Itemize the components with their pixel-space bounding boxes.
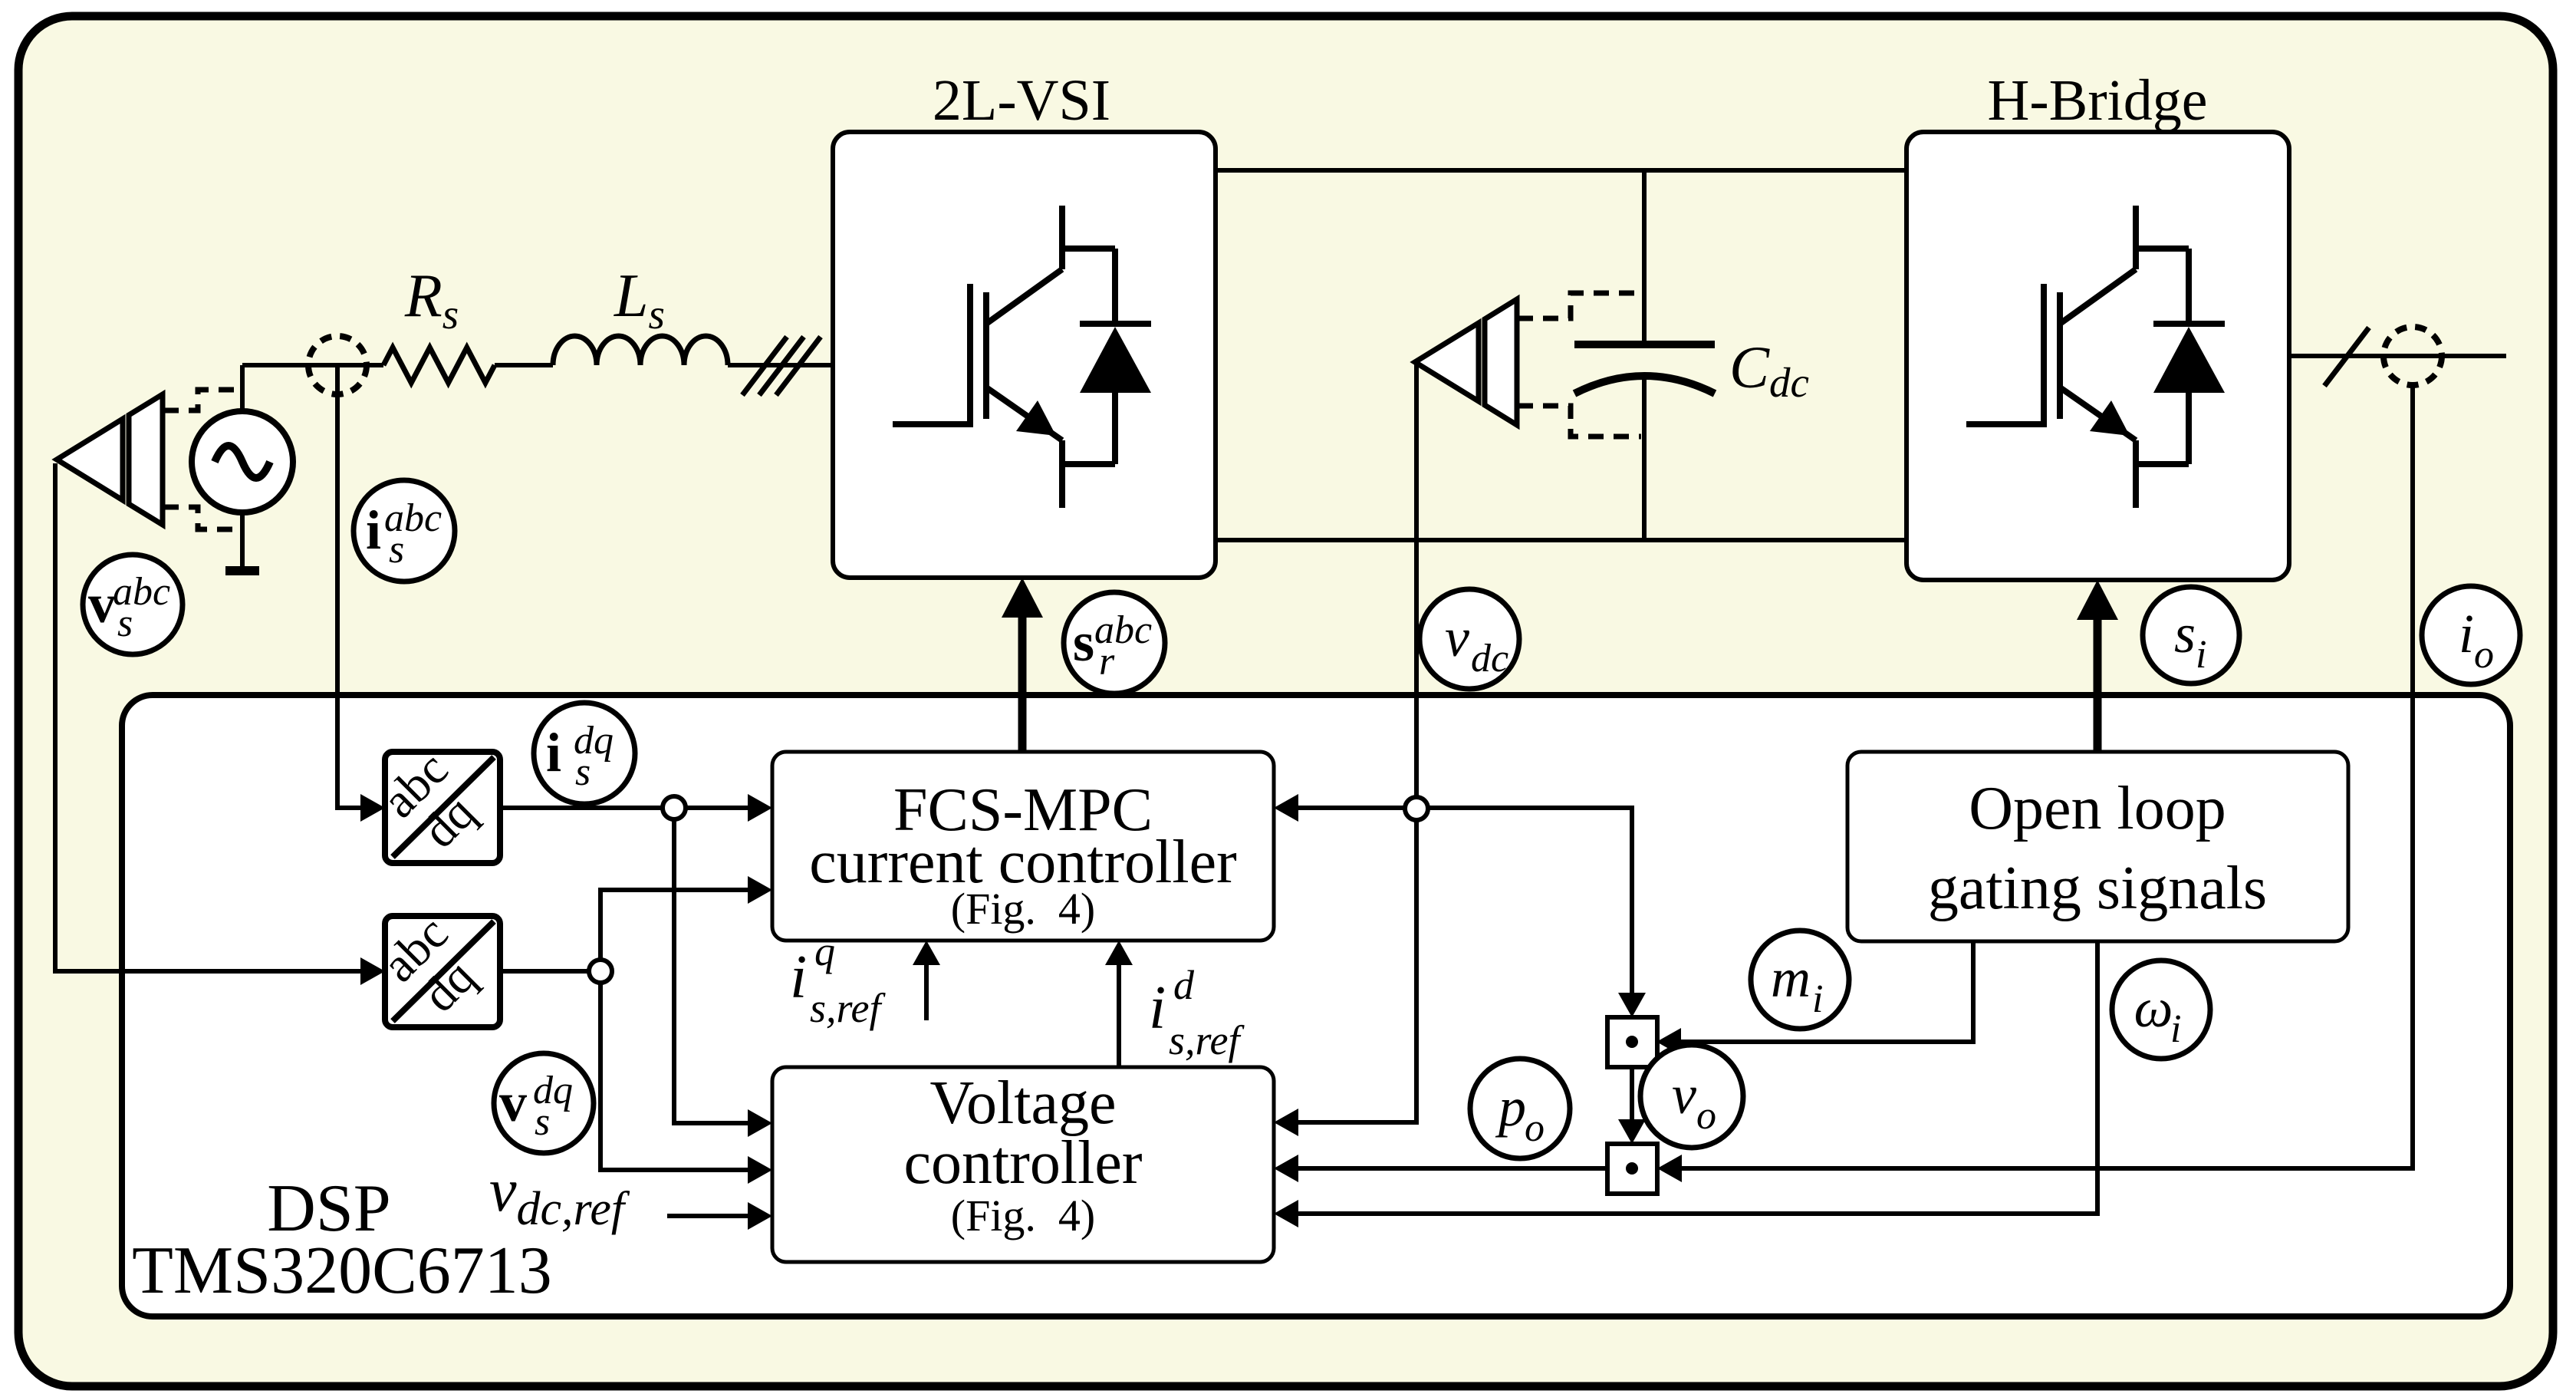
ground	[225, 566, 259, 575]
capacitor C_dc plates	[1574, 341, 1715, 348]
svg-text:s: s	[575, 750, 591, 794]
single-phase slash	[2324, 328, 2369, 386]
wire: H-Bridge output	[2289, 354, 2506, 358]
wire: v_dc junction to FCS right input	[1297, 806, 1416, 810]
wire: i_s,ref^q stub arrow	[924, 964, 929, 1020]
label circle m_i	[1751, 931, 1849, 1029]
DSP TMS320C6713 box	[122, 695, 2510, 1316]
wire: source to ground	[240, 512, 245, 571]
wire: abc/dq2 output	[500, 969, 600, 974]
label circle i_s^dq	[534, 703, 635, 804]
wire: v_dc,ref input	[667, 1214, 749, 1218]
svg-text:o: o	[1525, 1106, 1545, 1150]
Voltage controller box	[772, 1067, 1274, 1262]
thick arrow s_i into H-Bridge	[2094, 616, 2102, 752]
wire: v_dc down to voltage controller right input 1	[1297, 809, 1416, 1122]
svg-text:q: q	[814, 928, 835, 974]
wire: m_i from open loop to multiplier 1	[1681, 941, 1973, 1042]
svg-text:s: s	[535, 1100, 550, 1144]
wire: i_s^abc measurement down	[337, 365, 362, 808]
wire: v_dc branch right to multiplier 1	[1416, 808, 1632, 994]
svg-text:i: i	[2459, 603, 2474, 664]
arrow into abc/dq #1	[360, 794, 385, 822]
label circle s_r^abc	[1064, 592, 1165, 694]
svg-text:ω: ω	[2134, 977, 2173, 1039]
wire: p_o from multiplier2 to voltage controller right input 2	[1297, 1166, 1607, 1171]
label circle v_o	[1640, 1045, 1743, 1148]
wire: bus to capacitor	[1642, 170, 1647, 344]
label circle v_dc	[1420, 589, 1519, 689]
arrow into abc/dq #2	[360, 957, 385, 985]
svg-text:Voltage: Voltage	[930, 1069, 1117, 1137]
junction node i_s^dq	[663, 796, 686, 819]
svg-text:TMS320C6713: TMS320C6713	[132, 1234, 552, 1308]
wire: i_o measurement down	[1682, 385, 2413, 1168]
wire: multiplier1 to multiplier2 (v_o)	[1630, 1066, 1634, 1121]
wire: v_dc measurement down	[1414, 362, 1419, 809]
wire: junction v up to FCS-MPC input 2	[600, 890, 749, 971]
wire: junction i down to voltage controller input 1	[674, 808, 749, 1123]
wire: inductor to 2L-VSI	[728, 363, 833, 367]
wire: node down to source	[240, 365, 245, 411]
svg-text:r: r	[1099, 640, 1115, 684]
svg-text:(Fig. 4): (Fig. 4)	[951, 1191, 1096, 1240]
svg-text:i: i	[1149, 974, 1166, 1042]
dashed link probe top	[163, 390, 239, 410]
three-phase slash marks	[742, 337, 787, 395]
multiplier box 2 (v_o x i_o)	[1607, 1144, 1657, 1194]
wire: resistor to inductor	[495, 363, 553, 367]
node: current sense point (dashed circle)	[308, 336, 367, 394]
multiplier box 1 (v_dc x m_i)	[1607, 1017, 1657, 1067]
wire: DC bus bottom	[1215, 538, 1907, 542]
svg-text:dc: dc	[1471, 637, 1508, 680]
svg-text:v: v	[1445, 607, 1469, 668]
wire: DC bus top	[1215, 168, 1907, 173]
svg-text:H-Bridge: H-Bridge	[1987, 68, 2207, 133]
wire: abc/dq1 output to FCS-MPC	[500, 806, 749, 810]
H-Bridge converter box	[1907, 132, 2289, 580]
wire: i_s,ref^d from voltage controller to FCS-MPC	[1117, 964, 1121, 1067]
svg-text:d: d	[1173, 962, 1195, 1008]
svg-text:v: v	[499, 1072, 527, 1133]
label circle v_s^abc	[83, 555, 183, 654]
FCS-MPC current controller box	[772, 752, 1274, 941]
svg-text:Open loop: Open loop	[1969, 775, 2226, 842]
2L-VSI converter box	[833, 132, 1216, 578]
svg-text:s: s	[117, 601, 133, 645]
svg-text:p: p	[1495, 1076, 1526, 1138]
svg-text:v: v	[88, 573, 116, 634]
abc/dq transform block 2 (voltage)	[385, 916, 500, 1027]
IGBT symbol inside 2L-VSI	[893, 206, 1151, 508]
svg-text:i: i	[1812, 977, 1823, 1021]
inductor L_s	[553, 336, 728, 365]
svg-text:s: s	[1073, 611, 1094, 673]
svg-text:2L-VSI: 2L-VSI	[933, 68, 1110, 133]
svg-text:m: m	[1771, 947, 1811, 1009]
label circle s_i	[2143, 587, 2239, 684]
label circle v_s^dq	[494, 1053, 594, 1153]
junction node v_dc	[1405, 797, 1428, 820]
svg-text:i: i	[2170, 1007, 2181, 1051]
svg-text:s,ref: s,ref	[1169, 1017, 1245, 1063]
resistor R_s	[383, 348, 495, 383]
label circle p_o	[1470, 1059, 1570, 1158]
junction node v_s^dq	[589, 960, 612, 983]
IGBT symbol inside H-Bridge	[1966, 206, 2225, 508]
svg-text:(Fig. 4): (Fig. 4)	[951, 884, 1096, 934]
svg-text:o: o	[1696, 1094, 1716, 1138]
Open loop gating signals box	[1847, 752, 2348, 941]
label circle i_s^abc	[354, 480, 455, 582]
svg-text:i: i	[2196, 633, 2206, 677]
svg-text:s,ref: s,ref	[810, 985, 886, 1031]
wire: capacitor to bottom bus	[1642, 377, 1647, 540]
svg-text:s: s	[389, 528, 404, 572]
svg-text:i: i	[546, 722, 561, 783]
svg-text:gating signals: gating signals	[1928, 855, 2267, 922]
wire: junction v down to voltage controller input 2	[600, 971, 749, 1170]
wire: source to resistor	[242, 363, 383, 367]
AC source V_s	[192, 411, 293, 512]
svg-text:controller: controller	[904, 1129, 1143, 1197]
node: output current sense (dashed circle)	[2384, 327, 2442, 385]
svg-text:v: v	[1672, 1064, 1696, 1125]
wire: v_s^abc measurement down-left	[55, 463, 362, 971]
svg-text:o: o	[2474, 633, 2494, 677]
thick arrow s_r^abc into 2L-VSI	[1018, 614, 1027, 752]
arrow into multiplier 2	[1657, 1155, 1682, 1182]
dashed link v_dc probe top	[1518, 293, 1641, 318]
sine symbol	[215, 446, 270, 478]
label circle omega_i	[2112, 960, 2210, 1059]
svg-text:i: i	[790, 944, 807, 1011]
wire: omega_i from open loop to voltage controller right input 3	[1297, 941, 2097, 1214]
dashed link v_dc probe bottom	[1518, 406, 1641, 437]
probe symbol v_dc (double triangle)	[1415, 323, 1479, 401]
svg-text:s: s	[2174, 603, 2196, 664]
abc/dq transform block 1 (current)	[385, 752, 500, 863]
label circle i_o	[2422, 586, 2520, 684]
dashed link probe bottom	[163, 507, 239, 529]
svg-text:i: i	[366, 499, 381, 561]
probe symbol v_s^abc (double triangle)	[57, 419, 123, 500]
